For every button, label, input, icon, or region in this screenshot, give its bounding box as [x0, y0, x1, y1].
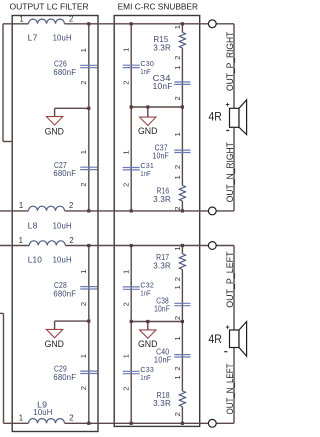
svg-text:1nF: 1nF — [140, 374, 151, 382]
svg-text:2: 2 — [173, 277, 182, 281]
svg-text:10uH: 10uH — [53, 254, 72, 264]
svg-text:2: 2 — [122, 302, 131, 306]
svg-text:1: 1 — [122, 354, 131, 358]
svg-text:2: 2 — [122, 387, 131, 391]
svg-text:1: 1 — [122, 150, 131, 154]
svg-text:3.3R: 3.3R — [153, 43, 171, 52]
svg-text:680nF: 680nF — [53, 288, 76, 298]
svg-text:2: 2 — [173, 316, 182, 320]
svg-text:10nF: 10nF — [153, 82, 173, 91]
svg-text:C33: C33 — [140, 366, 154, 374]
svg-text:3.3R: 3.3R — [153, 261, 171, 270]
svg-text:4R: 4R — [208, 332, 221, 346]
svg-text:1nF: 1nF — [140, 170, 151, 178]
svg-text:C31: C31 — [140, 162, 154, 170]
svg-text:10nF: 10nF — [154, 305, 170, 314]
svg-text:+: + — [226, 324, 230, 331]
svg-text:1: 1 — [173, 336, 182, 340]
svg-text:2: 2 — [173, 55, 182, 59]
svg-text:1: 1 — [173, 246, 182, 250]
svg-text:3.3R: 3.3R — [153, 399, 171, 408]
svg-text:L7: L7 — [28, 32, 38, 42]
svg-text:680nF: 680nF — [53, 168, 76, 178]
svg-text:L8: L8 — [28, 220, 38, 230]
svg-text:2: 2 — [79, 182, 88, 186]
svg-text:GND: GND — [138, 339, 158, 349]
svg-text:1: 1 — [19, 414, 23, 423]
svg-text:680nF: 680nF — [53, 67, 76, 77]
svg-text:C32: C32 — [140, 282, 154, 290]
svg-text:OUT_N_LEFT: OUT_N_LEFT — [225, 363, 235, 414]
svg-text:1: 1 — [173, 65, 182, 69]
svg-text:1: 1 — [79, 354, 88, 358]
svg-text:2: 2 — [69, 14, 73, 23]
svg-text:1nF: 1nF — [140, 68, 151, 76]
svg-text:2: 2 — [69, 201, 73, 210]
svg-text:680nF: 680nF — [53, 372, 76, 382]
svg-text:1: 1 — [79, 269, 88, 273]
svg-text:OUT_P_LEFT: OUT_P_LEFT — [225, 251, 235, 308]
svg-text:2: 2 — [173, 366, 182, 370]
svg-text:1: 1 — [79, 150, 88, 154]
svg-text:EMI C-RC SNUBBER: EMI C-RC SNUBBER — [118, 3, 199, 12]
svg-text:GND: GND — [138, 126, 158, 136]
svg-text:3.3R: 3.3R — [153, 195, 171, 204]
svg-text:2: 2 — [173, 96, 182, 100]
svg-text:1: 1 — [173, 25, 182, 29]
svg-text:2: 2 — [173, 206, 182, 210]
svg-text:OUT_P_RIGHT: OUT_P_RIGHT — [225, 31, 235, 91]
svg-text:10uH: 10uH — [53, 220, 72, 230]
svg-text:OUT_N_RIGHT: OUT_N_RIGHT — [225, 142, 235, 202]
svg-text:GND: GND — [45, 339, 65, 349]
svg-text:2: 2 — [69, 414, 73, 423]
svg-text:10uH: 10uH — [33, 407, 52, 417]
svg-text:10nF: 10nF — [154, 356, 172, 365]
svg-text:10nF: 10nF — [152, 152, 169, 161]
svg-text:1: 1 — [122, 48, 131, 52]
svg-text:1: 1 — [173, 285, 182, 289]
svg-text:1: 1 — [19, 201, 23, 210]
svg-text:C30: C30 — [140, 60, 154, 68]
svg-text:OUTPUT LC FILTER: OUTPUT LC FILTER — [10, 3, 89, 12]
svg-text:1: 1 — [122, 270, 131, 274]
svg-text:4R: 4R — [208, 110, 221, 124]
svg-text:10uH: 10uH — [53, 32, 72, 42]
svg-text:1: 1 — [173, 175, 182, 179]
svg-text:+: + — [226, 102, 230, 109]
svg-text:L10: L10 — [28, 254, 42, 264]
svg-text:2: 2 — [122, 80, 131, 84]
svg-text:2: 2 — [79, 386, 88, 390]
svg-text:1: 1 — [19, 236, 23, 245]
svg-text:2: 2 — [69, 236, 73, 245]
svg-text:1: 1 — [79, 48, 88, 52]
svg-text:2: 2 — [79, 81, 88, 85]
svg-text:1: 1 — [173, 132, 182, 136]
svg-text:GND: GND — [45, 126, 65, 136]
svg-text:2: 2 — [79, 302, 88, 306]
svg-text:1: 1 — [173, 375, 182, 379]
svg-text:1: 1 — [19, 14, 23, 23]
svg-text:2: 2 — [173, 165, 182, 169]
svg-text:1nF: 1nF — [140, 290, 151, 298]
svg-text:2: 2 — [122, 183, 131, 187]
svg-text:2: 2 — [173, 412, 182, 416]
